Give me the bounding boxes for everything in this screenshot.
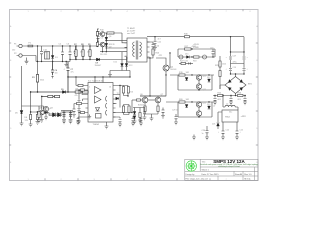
resistor R21 [144, 103, 146, 112]
capacitor C3 [69, 46, 72, 60]
resistor R27 [179, 62, 193, 64]
ground r32 [138, 118, 142, 123]
ground emitter [150, 118, 154, 121]
transistor Q7 [155, 97, 161, 103]
svg-text:230: 230 [12, 49, 15, 51]
fuse F1 [28, 45, 33, 47]
svg-text:C5: C5 [101, 37, 103, 39]
junction dots bus [230, 51, 245, 74]
ground Q3 [44, 117, 48, 120]
resistor R31 [137, 99, 141, 101]
capacitor C7 electrolytic [67, 62, 70, 92]
resistor R9 [89, 46, 91, 60]
svg-text:C25: C25 [240, 130, 243, 132]
resistor R35 [128, 105, 130, 115]
transistor Q6 [142, 97, 148, 103]
wire zener column [22, 66, 44, 123]
frame zone ticks left [9, 43, 11, 145]
ground C29 [174, 122, 178, 125]
ground fb bus [77, 121, 81, 124]
svg-text:150k: 150k [222, 63, 226, 65]
svg-text:16: 16 [109, 86, 111, 88]
wire snubber drop [149, 58, 151, 96]
resistor R5 [55, 95, 60, 97]
ground d20 [133, 119, 137, 124]
capacitor C36 [143, 112, 147, 120]
resistor R30 inline [185, 36, 190, 38]
wire fb bus [79, 90, 86, 121]
transistor Q12 [196, 102, 201, 107]
svg-text:30u: 30u [229, 112, 232, 114]
resistor R12 [96, 42, 98, 46]
transformer T1 [125, 38, 150, 62]
resistor R1 startup [36, 75, 38, 83]
svg-text:D13: D13 [129, 65, 132, 67]
wire emitter join [145, 112, 158, 119]
diode D9 [97, 58, 100, 61]
svg-text:1: 1 [89, 86, 90, 88]
svg-text:2k2: 2k2 [87, 51, 90, 53]
transistor Q10 [196, 75, 201, 80]
svg-text:Q12: Q12 [203, 102, 207, 104]
ground zener [20, 123, 24, 126]
capacitor C8 [62, 112, 66, 124]
wire cap row top [61, 111, 73, 113]
wire IC gnd [105, 122, 109, 129]
capacitor C4 [74, 46, 77, 60]
capacitor C6 [51, 62, 54, 78]
resistor R3 [83, 91, 89, 93]
frame zone digits bottom [27, 179, 251, 181]
wire 310V rail [147, 36, 244, 38]
resistor R18 [194, 56, 200, 58]
capacitor C15 [118, 120, 122, 127]
wire IC vcc drops [95, 77, 103, 83]
resistor R5 [55, 95, 60, 97]
inductor L2 [223, 96, 238, 111]
transistor Q13 [196, 111, 201, 116]
wire N rail [24, 56, 128, 62]
capacitor C9 [69, 112, 73, 124]
resistor R10 [105, 32, 122, 34]
ground R6 [37, 118, 41, 123]
title block outline [185, 159, 258, 180]
capacitor C16 [212, 49, 215, 57]
capacitor C2 [61, 46, 64, 62]
resistor R17 [185, 48, 192, 50]
zener D6 [30, 115, 32, 120]
capacitor C13 [78, 109, 81, 111]
wire aux row [31, 91, 88, 93]
ground C30 [161, 116, 165, 119]
diode D5 [63, 91, 66, 94]
svg-text:BU508: BU508 [138, 105, 144, 107]
resistor R2 [75, 91, 81, 93]
resistor R6 [38, 106, 40, 118]
capacitor C21 [213, 96, 217, 105]
svg-text:2k2: 2k2 [80, 51, 83, 53]
capacitor C7 electrolytic [67, 62, 70, 92]
diode D9 [97, 58, 100, 61]
wire dead time [78, 117, 86, 119]
snubber C10 [147, 42, 155, 49]
svg-text:D21: D21 [212, 124, 215, 126]
transistor Q1 [98, 32, 104, 37]
diode BR1 c [228, 87, 231, 91]
wire drv pairs [124, 96, 130, 105]
resistor R15 [74, 102, 86, 107]
wire q10 q11 [198, 80, 200, 84]
transistor Q4 [163, 65, 169, 71]
wire vcc rail [68, 76, 130, 78]
wire drv out b [113, 100, 132, 119]
resistor R22 [157, 103, 159, 112]
resistor R1 startup [36, 75, 38, 83]
svg-text:D19: D19 [207, 104, 210, 106]
ground C25 [235, 137, 239, 140]
diode D7 [53, 113, 56, 116]
capacitor C14 [72, 108, 76, 118]
svg-text:R18: R18 [193, 61, 196, 63]
junction dots band b [165, 74, 209, 90]
resistor R8 [82, 46, 84, 60]
frame zone ticks right [256, 43, 258, 145]
junction dots left [30, 76, 69, 112]
svg-text:D15: D15 [185, 53, 188, 55]
diode D14 [116, 97, 119, 100]
wire bias row [133, 108, 145, 113]
wire bridge bottom [235, 94, 237, 96]
svg-text:D12: D12 [114, 62, 117, 64]
wire bus top [231, 37, 245, 52]
svg-text:R16: R16 [130, 91, 133, 93]
capacitor C17 electrolytic [229, 57, 232, 59]
resistor R7 [75, 46, 77, 60]
band A wire top [178, 49, 215, 57]
wire bus ties [231, 52, 245, 77]
diode D21 [217, 123, 220, 126]
resistor R3 [83, 91, 89, 93]
svg-text:470u: 470u [233, 61, 237, 63]
svg-text:10n: 10n [55, 72, 58, 74]
diode D17 [208, 79, 211, 82]
capacitor C25 electrolytic [236, 131, 239, 137]
wire flyback column [105, 33, 107, 52]
resistor R7 [75, 46, 77, 60]
wire d21 tail [217, 126, 219, 129]
junction dots left [30, 76, 69, 112]
bridge rectifier BR1 [225, 77, 246, 94]
resistor R34 [122, 105, 129, 115]
svg-text:47k: 47k [75, 95, 78, 97]
svg-text:2k2: 2k2 [73, 51, 76, 53]
transistor Q3 [43, 106, 48, 111]
capacitor C6 [51, 62, 54, 78]
diode D5 [63, 91, 66, 94]
svg-text:1n: 1n [202, 133, 204, 135]
connector P1 line [17, 44, 24, 47]
svg-text:C29 1n: C29 1n [172, 110, 178, 112]
wire output row [213, 95, 246, 97]
diode D8 [58, 113, 61, 116]
wire sense row [42, 96, 60, 98]
capacitor C8 [62, 111, 66, 123]
regulator box U2 [222, 110, 238, 122]
wire startup drop [37, 46, 39, 92]
junction dots band a [169, 48, 213, 57]
resistor R14 [76, 77, 86, 87]
diode D18 [185, 105, 188, 108]
svg-text:Size A4: Size A4 [235, 173, 243, 176]
svg-text:IC1 TL494CN drv: IC1 TL494CN drv [88, 81, 104, 83]
svg-text:470R: 470R [192, 46, 197, 48]
transistor Q2 [98, 42, 104, 47]
wire diode pair [110, 52, 130, 77]
svg-text:D10 D11: D10 D11 [100, 54, 107, 56]
band C wire top [166, 102, 214, 117]
junction dots hb [97, 40, 107, 52]
svg-text:BD139: BD139 [109, 44, 115, 46]
value label group [12, 33, 243, 135]
diode D13 [125, 64, 128, 67]
wire Q4 emitter [140, 71, 166, 96]
logo emblem [186, 161, 196, 171]
svg-text:1N4007: 1N4007 [95, 65, 102, 67]
wire bridge left [220, 85, 225, 89]
wire Q3 collector [41, 97, 43, 111]
ground aux column [29, 124, 33, 127]
capacitor C22 [229, 96, 233, 105]
ground Y caps [64, 62, 68, 68]
svg-text:C16: C16 [210, 47, 213, 49]
svg-text:+12V: +12V [241, 116, 247, 118]
diode D16 [185, 78, 188, 81]
wire drv out a [116, 86, 129, 97]
wire Q3 emitter [41, 115, 43, 120]
resistor R4 [48, 95, 53, 97]
ground C11 [153, 48, 157, 51]
wire hb mid rows [100, 33, 127, 52]
capacitor C30 [162, 108, 165, 116]
wire vcc rail [68, 76, 130, 78]
resistor R6 [36, 112, 38, 120]
transistor Q8 [179, 55, 183, 59]
capacitor C31 [189, 62, 191, 64]
diode D15 [187, 56, 190, 59]
svg-text:Date: 27 Jun 2015: Date: 27 Jun 2015 [202, 173, 220, 176]
zener D6 [20, 111, 23, 114]
ground diode pair [108, 71, 112, 78]
junction dots ic [75, 76, 103, 113]
svg-text:sec 2x4T: sec 2x4T [127, 33, 136, 35]
svg-text:TL494: TL494 [93, 124, 100, 126]
capacitor C11 [154, 37, 157, 48]
transistor Q9 [203, 55, 207, 59]
capacitor C24 electrolytic [222, 131, 225, 137]
resistor R25 [218, 94, 224, 96]
svg-text:0R1: 0R1 [238, 99, 241, 101]
ground C26 [205, 137, 209, 140]
capacitor C19 electrolytic [229, 69, 232, 71]
resistor R9 [89, 46, 91, 60]
junction dots EMI [37, 45, 71, 62]
wire q7 base [148, 99, 155, 101]
wire q6 q7 collectors [140, 96, 166, 97]
svg-text:Sh 1/1: Sh 1/1 [244, 178, 251, 180]
svg-text:C19: C19 [233, 67, 236, 69]
transistor Q3 [40, 110, 45, 115]
diode BR1 b [239, 79, 242, 83]
svg-text:www.danyk.cz/smps12v.html: www.danyk.cz/smps12v.html [218, 165, 240, 168]
svg-text:330k: 330k [40, 79, 44, 81]
diode D7 [53, 114, 56, 117]
capacitor C32 [76, 119, 80, 125]
capacitor C20 electrolytic [243, 69, 246, 71]
resistor R8 [82, 46, 84, 60]
capacitor C34 [139, 116, 143, 126]
svg-text:Sheet 1: Sheet 1 [202, 169, 210, 172]
junction dots band c [191, 101, 209, 117]
frame zone letters left [10, 25, 12, 164]
frame zone digits top [27, 11, 251, 13]
junction dots output [214, 95, 245, 96]
capacitor C1 [40, 46, 43, 62]
junction dots basedrv [75, 45, 90, 60]
junction dots drv [119, 76, 132, 113]
resistor R2 [75, 91, 81, 93]
ground R6 [36, 120, 40, 125]
wire diode row [49, 113, 62, 115]
resistor R32 [139, 113, 141, 118]
resistor R20 [179, 101, 185, 103]
svg-text:7812: 7812 [225, 116, 231, 118]
svg-text:0R1: 0R1 [218, 99, 221, 101]
resistor R24 [219, 71, 221, 77]
resistor R16 [127, 86, 129, 97]
capacitor C9 [69, 111, 73, 123]
diode D8 [58, 114, 61, 117]
capacitor C4a chain [97, 28, 100, 42]
op-amp U1 TL494 box [86, 83, 116, 123]
svg-text:100n: 100n [43, 52, 47, 54]
wire sense row [42, 96, 60, 98]
resistor R28 [81, 89, 85, 91]
snubber R13 [147, 49, 154, 58]
svg-text:BU508: BU508 [171, 69, 177, 71]
svg-text:BC547: BC547 [45, 109, 51, 111]
resistor R19 [179, 74, 185, 76]
svg-text:4n7: 4n7 [158, 39, 161, 41]
svg-text:Design by: Design by [186, 174, 195, 176]
ground C24 [221, 137, 225, 140]
varistor RV1 [52, 46, 54, 62]
diode D11 [105, 43, 108, 46]
resistor R4 [48, 95, 53, 97]
earth ground [25, 58, 29, 65]
resistor R26 [238, 94, 244, 96]
diode D19 [208, 106, 211, 109]
frame zone ticks bottom [45, 178, 210, 180]
diode D12 [121, 64, 124, 67]
wire q12 q13 [198, 107, 200, 111]
capacitor C26 [206, 126, 209, 137]
resistor R29 [81, 111, 85, 113]
resistor R11 [96, 29, 98, 47]
wire aux drop column [31, 92, 40, 124]
svg-text:R27 C31: R27 C31 [180, 60, 189, 62]
ground spare [192, 135, 196, 140]
wire q6 base [132, 99, 142, 101]
diode D23 [133, 116, 136, 119]
transistor Q11 [196, 84, 201, 89]
wire diode row [48, 113, 63, 116]
ground Q3 [40, 120, 44, 123]
svg-text:T2: T2 [117, 93, 119, 95]
junction dot 310 [154, 36, 231, 37]
wire cap row top [61, 110, 73, 112]
diode D10 [105, 37, 108, 40]
capacitor C23 [243, 96, 247, 105]
diode D20 [133, 112, 136, 115]
wire Q4 collector [156, 58, 166, 65]
svg-text:L2: L2 [213, 106, 215, 108]
wire L rail [24, 45, 98, 47]
svg-text:File: smps_12v_12a.sch: File: smps_12v_12a.sch [186, 178, 209, 180]
frame zone ticks top [45, 9, 243, 11]
diode BR1 a [228, 79, 231, 83]
choke L1 [45, 52, 50, 60]
capacitor C12 [78, 101, 81, 103]
transformer T2 stub [119, 97, 121, 108]
wire Q4 base [163, 53, 170, 68]
resistor R33 [122, 86, 124, 96]
svg-text:47u: 47u [71, 71, 74, 73]
border frame [10, 10, 259, 181]
wire reg pins [218, 112, 237, 131]
band B wire top [170, 75, 214, 90]
wire Q3 emitter [45, 112, 47, 117]
wire aux row [31, 91, 88, 93]
ground U1 left [88, 115, 91, 120]
frame zone letters right [256, 25, 258, 164]
capacitor C29 [175, 114, 178, 122]
diode BR1 d [239, 87, 242, 91]
svg-text:D17: D17 [207, 77, 210, 79]
svg-text:Q11: Q11 [203, 89, 206, 91]
capacitor C33 [131, 116, 135, 126]
diode D22 [45, 111, 48, 114]
svg-text:BD139: BD139 [109, 33, 115, 35]
connector P2 neutral [17, 54, 24, 57]
svg-text:C24: C24 [226, 130, 229, 132]
resistor R23 [219, 56, 221, 89]
capacitor C18 electrolytic [243, 57, 246, 59]
svg-text:Rev 1.0: Rev 1.0 [244, 174, 252, 176]
